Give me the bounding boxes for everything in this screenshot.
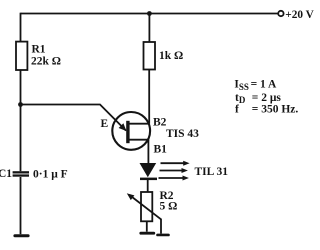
- wire: base-two lead B2: [128, 123, 149, 125]
- diode LED TIL 31 triangle (anode): [140, 163, 157, 177]
- svg-text:B1: B1: [154, 144, 168, 156]
- wire: LED cathode to R2: [147, 180, 149, 192]
- resistor R2 rheostat body: [141, 192, 152, 221]
- wire: rheostat wiper diagonal: [129, 195, 161, 219]
- wire: capacitor to ground: [20, 177, 22, 234]
- terminal: +20 V supply terminal: [278, 11, 283, 16]
- capacitor C1 top plate: [13, 171, 29, 173]
- svg-text:= 2 μs: = 2 μs: [252, 92, 282, 104]
- svg-text:TIS 43: TIS 43: [166, 128, 199, 140]
- svg-text:22k Ω: 22k Ω: [31, 56, 61, 68]
- arrow: LED emission arrow 2: [160, 168, 188, 173]
- wire: R2 bottom lead to ground: [146, 221, 148, 231]
- svg-text:C1: C1: [0, 168, 12, 180]
- ground: R2 ground bar: [139, 232, 155, 235]
- svg-text:+20 V: +20 V: [285, 9, 314, 21]
- arrowhead: rheostat wiper arrow tip: [127, 193, 135, 200]
- svg-text:f: f: [235, 103, 239, 115]
- svg-text:R1: R1: [32, 44, 46, 56]
- transistor Q1 TIS 43 UJT body circle: [112, 112, 150, 150]
- resistor 1k: [144, 42, 156, 70]
- node: junction of supply rail and 1k branch: [147, 11, 152, 16]
- label: f = 350 Hz: [235, 103, 298, 115]
- arrow: LED emission arrow 3: [159, 176, 189, 181]
- svg-text:0·1 μ F: 0·1 μ F: [33, 169, 68, 181]
- arrow: LED emission arrow 1: [161, 161, 190, 166]
- ground: capacitor ground bar: [13, 234, 29, 237]
- arrowhead: emitter arrow into UJT: [119, 123, 127, 131]
- svg-text:= 1 A: = 1 A: [251, 79, 277, 91]
- wire: emitter connection to UJT: [21, 105, 127, 131]
- wire: left branch from rail to R1: [20, 13, 22, 42]
- resistor R1: [16, 42, 27, 70]
- svg-text:1k Ω: 1k Ω: [159, 50, 183, 62]
- label: tD = 2 µs: [235, 92, 281, 105]
- svg-text:= 350 Hz.: = 350 Hz.: [252, 103, 299, 115]
- svg-text:ISS: ISS: [234, 79, 249, 92]
- wire: base-one lead B1: [128, 139, 149, 141]
- svg-text:5 Ω: 5 Ω: [160, 201, 178, 213]
- diode LED cathode bar: [140, 178, 157, 181]
- node: junction of left branch and emitter wire: [18, 102, 23, 107]
- svg-text:TIL 31: TIL 31: [195, 166, 229, 178]
- wire: B1 down to LED anode: [147, 140, 149, 164]
- label: R1 22k Ω: [31, 44, 61, 68]
- wire: top supply rail: [21, 13, 278, 15]
- transistor Q1 base bar: [126, 121, 129, 143]
- ground: wiper ground bar: [156, 234, 170, 237]
- wire: 1k resistor down to B2: [148, 70, 150, 124]
- svg-text:B2: B2: [153, 117, 167, 129]
- capacitor C1 bottom plate: [13, 174, 29, 176]
- label: R2 5 Ω: [160, 190, 178, 213]
- svg-text:E: E: [101, 118, 109, 130]
- label: ISS = 1 A: [234, 79, 277, 92]
- wire: left branch R1 to capacitor: [20, 70, 22, 171]
- wire: right branch rail to 1k resistor: [148, 14, 150, 43]
- wire: wiper lead down to ground: [160, 219, 162, 234]
